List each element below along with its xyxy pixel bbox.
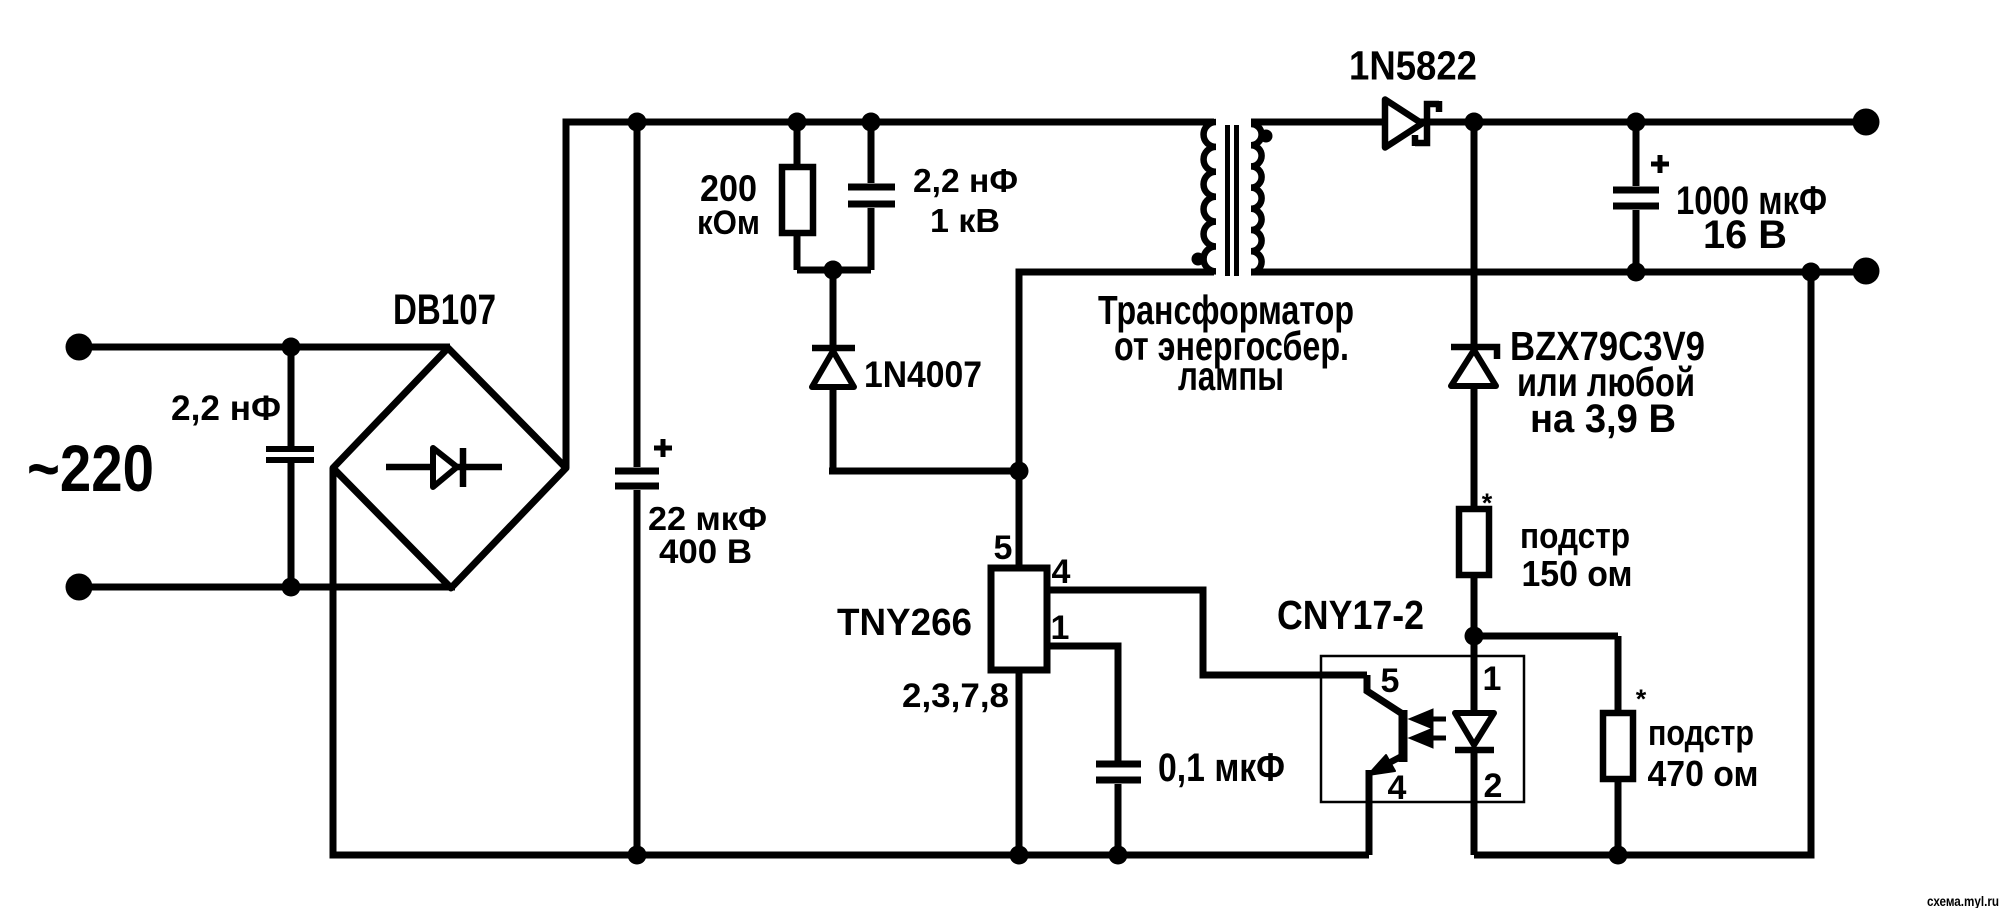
bridge rectifier DB107 <box>333 348 566 588</box>
terminal: + output <box>1853 109 1880 136</box>
svg-text:22 мкФ: 22 мкФ <box>648 500 767 537</box>
node: bottom rail 0.1uF junction <box>1109 846 1128 865</box>
node: top rail 200k junction <box>788 113 807 132</box>
svg-text:TNY266: TNY266 <box>837 602 972 644</box>
transformer phase dot primary <box>1192 253 1205 266</box>
wire: 470 branch horizontal <box>1474 633 1618 640</box>
svg-text:5: 5 <box>994 529 1013 567</box>
optocoupler LED <box>1455 636 1494 855</box>
capacitor C3 1000 мкФ 16 В <box>1613 122 1659 272</box>
svg-text:*: * <box>1636 684 1647 714</box>
transformer T1: primary winding <box>1204 122 1216 271</box>
svg-text:CNY17-2: CNY17-2 <box>1277 592 1424 638</box>
svg-text:схема.myl.ru: схема.myl.ru <box>1927 894 1999 908</box>
wire: TNY source pins to bottom rail <box>1016 670 1023 855</box>
svg-text:подстр: подстр <box>1520 515 1630 556</box>
svg-text:1 кВ: 1 кВ <box>930 202 1000 239</box>
diode D2 1N5822 <box>1385 100 1439 148</box>
svg-text:2,2 нФ: 2,2 нФ <box>913 162 1018 199</box>
node: LED / 470 branch junction <box>1465 627 1484 646</box>
wire: bridge - output to bottom rail <box>333 468 1369 855</box>
transformer core <box>1225 125 1230 276</box>
svg-text:2,2 нФ: 2,2 нФ <box>171 389 281 428</box>
wire: TNY pin 4 to optocoupler collector <box>1047 590 1367 675</box>
wire: TNY pin 1 to 0.1uF <box>1047 646 1118 761</box>
node: output return junction <box>1802 263 1821 282</box>
node: snubber bottom junction <box>824 261 843 280</box>
resistor R3 подстр 470 ом <box>1603 636 1633 855</box>
wire: transformer primary bottom to TNY drain <box>1019 272 1214 571</box>
node: input cap bottom junction <box>282 578 301 597</box>
svg-text:0,1 мкФ: 0,1 мкФ <box>1158 746 1285 790</box>
capacitor C2 22 мкФ 400 В <box>615 122 659 855</box>
wire: zener branch vertical <box>1471 122 1478 345</box>
label + (22 мкФ polarity) <box>654 439 672 457</box>
svg-text:2,3,7,8: 2,3,7,8 <box>902 677 1009 715</box>
svg-text:16 В: 16 В <box>1703 213 1787 257</box>
node: bottom rail TNY source junction <box>1010 846 1029 865</box>
svg-text:1N4007: 1N4007 <box>864 354 982 395</box>
node: 1000uF top junction <box>1627 113 1646 132</box>
terminal: - output <box>1853 258 1880 285</box>
svg-text:подстр: подстр <box>1648 712 1754 753</box>
svg-text:4: 4 <box>1052 553 1071 591</box>
IC U1 TNY266 body <box>991 568 1047 670</box>
resistor R1 200 кОм <box>782 122 871 270</box>
transformer phase dot secondary <box>1260 130 1273 143</box>
diode D1 1N4007 <box>812 270 1019 471</box>
optocoupler U2 CNY17-2 box <box>1321 656 1524 802</box>
resistor R2 подстр 150 ом <box>1459 509 1489 636</box>
wire: bridge + output to top rail <box>566 122 1214 468</box>
wire: secondary top to 1N5822 <box>1251 119 1385 126</box>
svg-text:400 В: 400 В <box>659 533 752 571</box>
wire: secondary top rail to + terminal <box>1419 119 1866 126</box>
wire: secondary ground rail bottom <box>1474 272 1811 855</box>
svg-text:5: 5 <box>1381 662 1400 700</box>
svg-text:4: 4 <box>1388 769 1407 807</box>
terminal: AC input top <box>66 334 93 361</box>
node: top rail 22uF junction <box>628 113 647 132</box>
svg-text:кОм: кОм <box>697 204 760 242</box>
terminal: AC input bottom <box>66 574 93 601</box>
wire: AC line top <box>79 344 450 351</box>
svg-text:200: 200 <box>700 168 757 209</box>
node: 470 bottom junction <box>1609 846 1628 865</box>
wire: AC line bottom <box>79 584 455 591</box>
optocoupler light arrows <box>1414 712 1446 745</box>
node: zener branch top junction <box>1465 113 1484 132</box>
zener diode VD1 BZX79C3V9 <box>1451 347 1497 509</box>
svg-text:лампы: лампы <box>1178 353 1284 399</box>
capacitor 2,2 нФ (input X-cap) <box>266 347 314 587</box>
svg-text:150 ом: 150 ом <box>1522 553 1633 594</box>
node: drain snubber junction <box>1010 462 1029 481</box>
svg-text:DB107: DB107 <box>393 287 496 334</box>
svg-text:~220: ~220 <box>27 431 154 505</box>
wire: secondary bottom rail <box>1251 269 1866 276</box>
node: bottom rail 22uF junction <box>628 846 647 865</box>
label + (1000 мкФ polarity) <box>1651 155 1669 173</box>
svg-text:470 ом: 470 ом <box>1648 753 1759 794</box>
node: top rail snubber cap junction <box>862 113 881 132</box>
capacitor 0,1 мкФ <box>1096 764 1141 855</box>
svg-text:1N5822: 1N5822 <box>1349 43 1477 89</box>
node: 1000uF bottom junction <box>1627 263 1646 282</box>
svg-text:*: * <box>1482 488 1493 518</box>
svg-text:2: 2 <box>1484 767 1503 805</box>
node: input cap top junction <box>282 338 301 357</box>
svg-text:1: 1 <box>1483 660 1502 698</box>
optocoupler phototransistor <box>1367 675 1403 855</box>
transformer T1: secondary winding <box>1251 124 1262 272</box>
svg-text:1: 1 <box>1051 609 1070 647</box>
svg-text:на 3,9 В: на 3,9 В <box>1530 397 1676 441</box>
capacitor 2,2 нФ 1 кВ (snubber) <box>848 122 895 270</box>
